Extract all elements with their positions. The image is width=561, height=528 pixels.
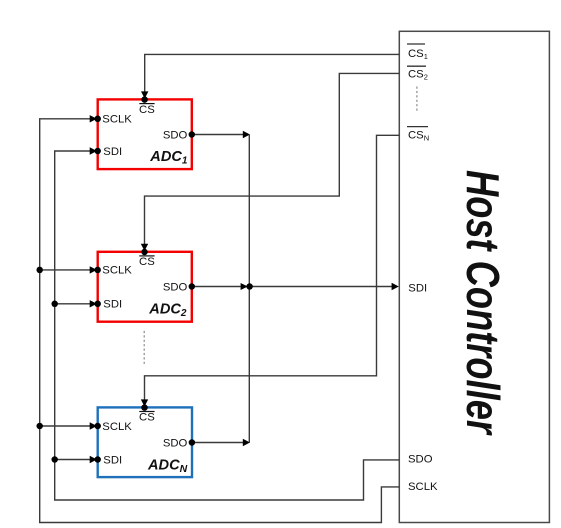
host pin label CS2 (with overline)	[407, 66, 428, 82]
arrowhead into ADC1 SCLK	[90, 115, 97, 122]
junction dot SDI bus / ADCN branch	[51, 456, 58, 463]
pin dot ADC1 SCLK	[94, 116, 101, 123]
host pin label CSN (with overline)	[407, 127, 429, 143]
pin dot ADC2 SDI	[94, 301, 101, 308]
ADCN pin label SDI	[103, 454, 122, 466]
svg-text:CS: CS	[139, 412, 155, 424]
pin dot ADC2 SCLK	[94, 267, 101, 274]
wire SDO net: ADCN SDO to bus bottom	[192, 442, 244, 444]
arrowhead into ADC1 CS	[141, 91, 148, 98]
pin dot ADCN CS	[141, 404, 148, 411]
junction dot SCLK bus / ADC2 branch	[36, 267, 43, 274]
wire SDI branch to ADC2	[55, 303, 91, 305]
wire CS1 net: host CS1 to ADC1 CS	[145, 54, 400, 93]
svg-text:SDI: SDI	[103, 299, 122, 311]
ADC1 block U1	[98, 99, 192, 169]
host pin label SCLK	[408, 481, 438, 493]
wire SDO net: ADC1 SDO to bus	[192, 134, 244, 136]
pin dot ADC1 SDO	[189, 131, 196, 138]
arrowhead into ADC2 CS	[141, 244, 148, 251]
wire SCLK net: host SCLK to SCLK bus and ADC1 SCLK	[40, 119, 400, 523]
svg-text:SDI: SDI	[103, 454, 122, 466]
svg-text:SCLK: SCLK	[102, 265, 132, 277]
wire CSN net: host CSN to ADCN CS	[145, 135, 400, 401]
ADC2 value label ADC2	[148, 302, 187, 320]
svg-text:Host Controller: Host Controller	[457, 170, 509, 436]
ADC2 pin label SDO	[163, 281, 188, 293]
junction dot SDI bus / ADC2 branch	[51, 301, 58, 308]
ADC2 pin label SDI	[103, 299, 122, 311]
arrowhead into ADC2 SDI	[90, 300, 97, 307]
host pin label SDO	[408, 454, 433, 466]
pin dot ADC1 CS	[141, 96, 148, 103]
ADCN value label ADCN	[147, 458, 188, 476]
pin dot ADCN SDI	[94, 456, 101, 463]
svg-text:SDO: SDO	[408, 454, 433, 466]
ADCN pin label CS (with overline)	[139, 412, 155, 424]
ADC2 pin label SCLK	[102, 265, 132, 277]
ADC1 value label ADC1	[149, 149, 188, 167]
arrowhead into ADCN CS	[141, 399, 148, 406]
ADC2 block U2	[98, 252, 192, 322]
svg-text:CS: CS	[139, 256, 155, 268]
junction dot SCLK bus / ADCN branch	[36, 423, 43, 430]
pin dot ADC2 SDO	[189, 283, 196, 290]
host pin label SDI	[408, 282, 427, 294]
junction dot SDO bus / host SDI line	[246, 283, 253, 290]
ADC2 pin label CS (with overline)	[139, 256, 155, 268]
ADC1 pin label SDI	[103, 146, 122, 158]
host controller U-HOST box	[399, 31, 549, 522]
dotted continuation inside host	[416, 87, 418, 113]
arrowhead into ADC1 SDI	[90, 147, 97, 154]
ADC1 pin label SCLK	[102, 114, 132, 126]
svg-text:SDO: SDO	[163, 281, 188, 293]
wire CS2 net: host CS2 to ADC2 CS	[145, 73, 400, 246]
host pin label CS1 (with overline)	[407, 44, 428, 61]
arrowhead into ADC2 SCLK	[90, 266, 97, 273]
ADCN pin label SCLK	[102, 421, 132, 433]
pin dot ADC1 SDI	[94, 148, 101, 155]
wire SCLK branch to ADC2	[40, 269, 91, 271]
svg-text:CS: CS	[139, 104, 155, 116]
arrowhead at SDO bus bottom corner	[243, 439, 250, 446]
pin dot ADC2 CS	[141, 249, 148, 256]
wire SDO bus vertical	[248, 135, 250, 443]
label Host Controller	[457, 170, 509, 436]
svg-text:SDO: SDO	[163, 129, 188, 141]
pin dot ADCN SDO	[189, 439, 196, 446]
dotted continuation between ADC2 and ADCN	[143, 331, 145, 366]
ADCN block UN	[98, 407, 192, 477]
pin dot ADCN SCLK	[94, 423, 101, 430]
wire SCLK branch to ADCN	[40, 425, 91, 427]
wire SDI net: host SDO to SDI bus and ADC1 SDI	[55, 151, 400, 500]
svg-text:SCLK: SCLK	[102, 421, 132, 433]
arrowhead at SDO bus junction	[241, 283, 248, 290]
wire SDO net: ADC2 SDO to host SDI	[192, 286, 393, 288]
arrowhead at SDO bus top corner	[243, 131, 250, 138]
arrowhead into host SDI	[392, 283, 399, 290]
svg-text:SDO: SDO	[163, 437, 188, 449]
svg-text:SCLK: SCLK	[102, 114, 132, 126]
svg-text:SCLK: SCLK	[408, 481, 438, 493]
arrowhead into ADCN SDI	[90, 456, 97, 463]
arrowhead into ADCN SCLK	[90, 422, 97, 429]
ADCN pin label SDO	[163, 437, 188, 449]
svg-text:SDI: SDI	[408, 282, 427, 294]
wire SDI branch to ADCN	[55, 459, 91, 461]
ADC1 pin label SDO	[163, 129, 188, 141]
ADC1 pin label CS (with overline)	[139, 104, 155, 116]
svg-text:SDI: SDI	[103, 146, 122, 158]
